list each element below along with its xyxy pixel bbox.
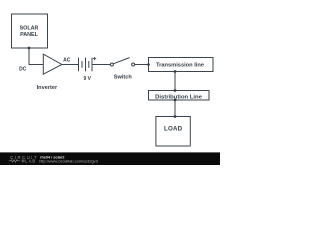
load box [156, 117, 190, 147]
svg-text:Distribution Line: Distribution Line [155, 94, 203, 100]
node distribution top [174, 89, 177, 92]
svg-text:Transmission line: Transmission line [156, 62, 204, 68]
transmission line box [149, 58, 214, 72]
node load top [174, 115, 177, 118]
wire transmission to distribution [174, 72, 176, 91]
junction dots [28, 47, 177, 118]
switch SW1 [110, 63, 113, 66]
node transmission left [147, 63, 150, 66]
wire distribution to load [174, 100, 176, 117]
label + battery polarity [93, 57, 96, 60]
svg-text:AC: AC [63, 58, 71, 64]
svg-text:Inverter: Inverter [37, 85, 58, 91]
svg-text:SOLAR: SOLAR [20, 25, 39, 31]
node distribution bottom [174, 99, 177, 102]
node solar bottom [28, 47, 31, 50]
logo capacitor symbol [21, 160, 23, 163]
svg-text:Switch: Switch [114, 75, 133, 81]
svg-text:LOAD: LOAD [164, 126, 183, 133]
inverter U1 triangle [43, 54, 62, 74]
CircuitLab logo [9, 155, 39, 163]
distribution line box [149, 91, 210, 101]
solar panel box SOLAR PANEL [12, 14, 48, 48]
wire battery to switch [92, 64, 110, 66]
svg-text:PANEL: PANEL [20, 32, 39, 38]
logo resistor zigzag [9, 160, 21, 163]
node transmission bottom [174, 70, 177, 73]
battery V1 plates [79, 58, 93, 72]
wire inverter output to battery [62, 64, 79, 66]
svg-text:DC: DC [19, 67, 27, 73]
footer text [39, 156, 98, 164]
svg-text:LAB: LAB [25, 159, 36, 164]
svg-text:http://www.circuitlab.com/ce32: http://www.circuitlab.com/ce32gv3 [39, 159, 98, 164]
wire solar panel to inverter input [29, 48, 43, 65]
wire switch to transmission line box [135, 64, 149, 66]
footer watermark bar [0, 152, 220, 165]
svg-text:9 V: 9 V [83, 76, 91, 82]
